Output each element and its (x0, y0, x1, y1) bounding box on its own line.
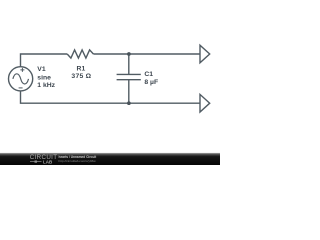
CircuitLab logo (30, 154, 58, 164)
component labels (37, 65, 158, 89)
node B bottom junction (127, 101, 131, 105)
node A top junction (127, 52, 131, 56)
svg-text:R1: R1 (77, 65, 86, 72)
plus sign (20, 68, 24, 72)
resistor R1 (67, 50, 93, 58)
node junction dots (127, 52, 131, 105)
svg-text:LAB: LAB (43, 159, 53, 164)
wire capacitor bottom stem (128, 80, 130, 104)
footer bar (0, 153, 220, 165)
wire capacitor top stem (128, 54, 130, 74)
svg-text:http://circuitlab.com/c/y93w: http://circuitlab.com/c/y93w (59, 159, 97, 163)
capacitor C1 (117, 74, 141, 79)
svg-text:V1: V1 (37, 66, 46, 73)
footer credit text (59, 155, 98, 163)
svg-text:375 Ω: 375 Ω (71, 73, 91, 80)
wire top rail left segment (21, 54, 68, 67)
minus sign (19, 87, 23, 89)
wire bottom rail (21, 91, 201, 103)
terminal arrow bottom (200, 94, 210, 112)
svg-text:8 µF: 8 µF (144, 79, 158, 86)
svg-text:C1: C1 (144, 71, 153, 78)
wire top rail right segment (93, 53, 200, 55)
terminal arrow top (200, 45, 210, 63)
voltage source V1 (9, 67, 33, 91)
svg-text:sine: sine (37, 74, 51, 81)
svg-text:1 kHz: 1 kHz (37, 82, 55, 89)
